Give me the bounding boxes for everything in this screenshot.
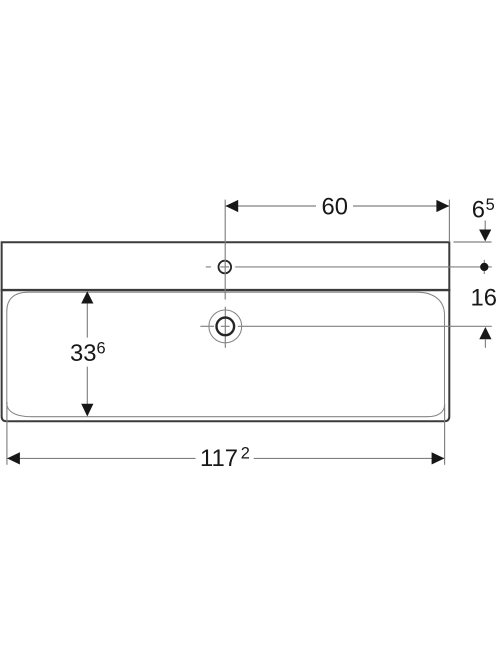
drain centerline horizontal [200,325,491,327]
dimension 60 line [225,205,316,207]
dimension 16 dot terminator line [483,260,485,274]
deck front edge line [1,289,451,291]
dimension 33.6 down arrow [81,404,93,417]
dimension 60 left arrow [225,200,238,212]
drain hole inner circle [217,318,235,336]
dimension 60 extension line left (through tap hole) [224,200,226,300]
drain centerline vertical [224,307,226,348]
dimension 6.5 extension line at deck top [454,241,492,243]
dimension 16 up arrow [479,327,491,339]
dimension 117.2 extension line left [6,402,8,465]
svg-text:16: 16 [471,285,496,312]
dimension 117.2 extension line right [444,404,446,465]
dimension 33.6 line upper [86,304,88,338]
dimension 117.2 right arrow [432,452,445,464]
svg-text:33: 33 [70,340,96,367]
washbasin outer outline [2,242,450,421]
dimension 33.6 line lower [86,367,88,404]
dimension 60 right arrow [436,200,449,212]
svg-text:117: 117 [200,445,238,472]
svg-text:6: 6 [472,196,485,223]
svg-text:60: 60 [322,194,348,221]
dimension 6.5 leader line [484,221,486,231]
dimension 117.2 line [7,457,196,459]
dimension 60 extension line right [448,200,450,242]
tap hole [219,261,232,274]
dimension 117.2 left arrow [7,452,20,464]
dimension 16 dot terminator [480,263,488,271]
dimension 6.5 down arrow [479,230,491,242]
svg-text:5: 5 [486,196,495,214]
dimension 33.6 up arrow [81,291,93,303]
svg-text:6: 6 [97,339,106,357]
svg-text:2: 2 [241,445,250,463]
dimension 16 arrow tail [484,339,486,348]
drain hole outer circle [209,310,242,343]
tap hole centerline horizontal [206,266,492,268]
inner basin rim [7,292,445,417]
